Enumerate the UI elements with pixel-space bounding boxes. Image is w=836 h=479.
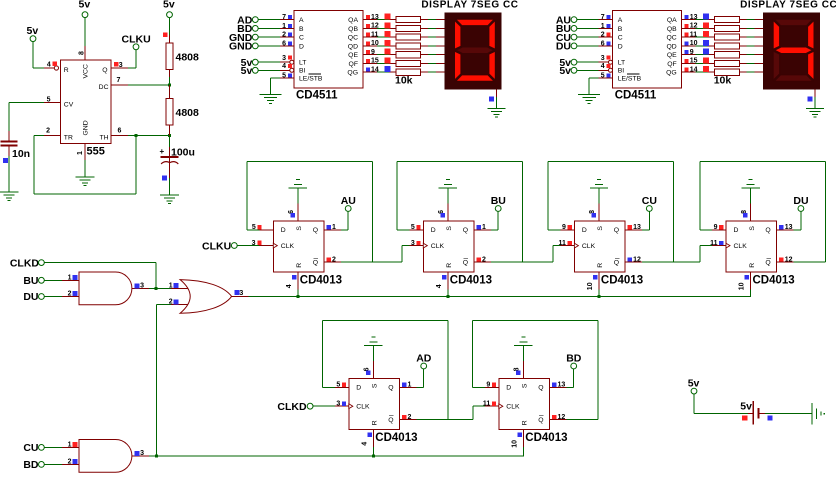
svg-text:A: A bbox=[618, 17, 623, 24]
wire Q to terminal BU U4B bbox=[474, 229, 491, 230]
pin number 1 and square (Q) bbox=[402, 383, 406, 387]
clock triangle U4B bbox=[423, 243, 427, 248]
resistor 10k #1 bbox=[715, 17, 740, 23]
wire S pin to ground U6B bbox=[523, 361, 524, 378]
wire CLKU to U4A CLK bbox=[237, 245, 259, 246]
svg-text:CD4013: CD4013 bbox=[525, 432, 567, 444]
wire D feedback loop U6B bbox=[473, 387, 485, 388]
wire Qbar U5B bbox=[777, 262, 794, 263]
wire resistor to display bbox=[739, 63, 746, 64]
svg-text:Q: Q bbox=[313, 227, 318, 234]
ground at U3 LE bbox=[578, 94, 600, 95]
resistor 10k #5 bbox=[396, 52, 421, 58]
svg-text:AD: AD bbox=[416, 353, 432, 365]
svg-text:B: B bbox=[299, 26, 304, 33]
wire S pin to ground U4A bbox=[297, 204, 298, 221]
wire resistor to display bbox=[421, 19, 428, 20]
AND gate U7:B (CU AND BD) bbox=[79, 440, 132, 473]
svg-text:7: 7 bbox=[282, 14, 286, 21]
wire U3 QE pin 9 to resistor bbox=[682, 54, 696, 55]
wire U2 LE pin 5 to ground bbox=[280, 78, 294, 79]
svg-text:14: 14 bbox=[690, 66, 698, 73]
svg-text:12: 12 bbox=[371, 23, 379, 30]
pin number 4 and square (R) bbox=[442, 275, 446, 279]
svg-text:S: S bbox=[296, 226, 303, 231]
svg-text:11: 11 bbox=[483, 401, 491, 408]
wire U3 QD pin 10 to resistor bbox=[682, 45, 696, 46]
svg-text:BD: BD bbox=[566, 353, 582, 365]
ground at U2 LE bbox=[260, 94, 282, 95]
AND gate U7:A (BU AND DU) bbox=[79, 272, 132, 305]
terminal DU bbox=[798, 206, 804, 212]
svg-text:Q: Q bbox=[538, 385, 543, 392]
svg-text:4808: 4808 bbox=[176, 52, 200, 64]
state squares at battery bbox=[742, 415, 747, 420]
pin number 13 and square (Q) bbox=[552, 383, 556, 387]
svg-text:Q: Q bbox=[388, 385, 393, 392]
wire resistor to display bbox=[421, 54, 428, 55]
svg-text:Q: Q bbox=[765, 227, 770, 234]
svg-text:10k: 10k bbox=[714, 75, 732, 87]
wire Qbar U6B bbox=[550, 419, 567, 420]
wire Qbar to next CLK bbox=[552, 246, 553, 263]
svg-text:DISPLAY 7SEG CC: DISPLAY 7SEG CC bbox=[740, 0, 836, 11]
wire 555 GND pin1 to ground bbox=[85, 144, 86, 161]
svg-text:5: 5 bbox=[411, 224, 415, 231]
wire Qbar U4A bbox=[324, 262, 341, 263]
state square 100u bottom bbox=[162, 176, 167, 181]
svg-text:2: 2 bbox=[601, 32, 605, 39]
ground under 555 bbox=[76, 177, 95, 178]
svg-text:10k: 10k bbox=[395, 75, 413, 87]
pin number 12 and square (Qbar) bbox=[552, 415, 556, 419]
svg-text:CLKU: CLKU bbox=[202, 240, 231, 252]
svg-text:11: 11 bbox=[690, 31, 698, 38]
svg-text:10: 10 bbox=[587, 282, 594, 290]
svg-text:S: S bbox=[522, 383, 529, 388]
wire 5v to R pin of 555 bbox=[33, 42, 34, 68]
wire display common cathode to ground bbox=[496, 89, 497, 97]
svg-text:555: 555 bbox=[87, 146, 105, 158]
pin number 13 and square (Q) bbox=[628, 225, 632, 229]
svg-text:10: 10 bbox=[371, 40, 379, 47]
flip-flop U5A CD4013 body bbox=[574, 221, 625, 272]
svg-text:CU: CU bbox=[23, 442, 38, 454]
svg-text:5v: 5v bbox=[163, 0, 175, 11]
svg-text:S: S bbox=[597, 226, 604, 231]
svg-text:CD4511: CD4511 bbox=[615, 89, 657, 101]
svg-text:1: 1 bbox=[482, 224, 486, 231]
svg-text:TH: TH bbox=[99, 134, 108, 141]
svg-text:11: 11 bbox=[558, 240, 566, 247]
svg-text:3: 3 bbox=[252, 240, 256, 247]
wire S pin to ground U6A bbox=[373, 361, 374, 378]
svg-text:10: 10 bbox=[511, 440, 518, 448]
terminal BU bbox=[495, 206, 501, 212]
svg-text:14: 14 bbox=[371, 66, 379, 73]
svg-text:D: D bbox=[582, 227, 587, 234]
svg-text:2: 2 bbox=[332, 256, 336, 263]
svg-text:4: 4 bbox=[47, 61, 51, 68]
svg-text:9: 9 bbox=[486, 382, 490, 389]
svg-text:5: 5 bbox=[336, 382, 340, 389]
wire U2 QE pin 9 to resistor bbox=[363, 54, 377, 55]
svg-text:BI: BI bbox=[618, 68, 625, 75]
pin number 2 and square (Qbar) bbox=[326, 257, 330, 261]
wire 555 TH pin6 to divider bottom bbox=[111, 135, 128, 136]
svg-text:LE/STB: LE/STB bbox=[618, 76, 642, 83]
svg-text:5: 5 bbox=[47, 96, 51, 103]
svg-text:Q: Q bbox=[102, 67, 107, 74]
svg-text:GND: GND bbox=[83, 120, 90, 135]
svg-text:QG: QG bbox=[347, 70, 358, 77]
wire resistor to display bbox=[421, 37, 428, 38]
svg-text:15: 15 bbox=[371, 58, 379, 65]
svg-text:11: 11 bbox=[371, 31, 379, 38]
inverted ground above U6A bbox=[364, 345, 382, 346]
7-segment display showing 0 bbox=[444, 12, 501, 89]
svg-text:D: D bbox=[734, 227, 739, 234]
flip-flop U6B CD4013 body bbox=[499, 378, 550, 429]
svg-text:LE/STB: LE/STB bbox=[299, 76, 323, 83]
svg-text:6: 6 bbox=[282, 40, 286, 47]
svg-text:2: 2 bbox=[482, 256, 486, 263]
wire U3 QA pin 13 to resistor bbox=[682, 19, 696, 20]
wire Q to terminal DU U5B bbox=[777, 229, 794, 230]
svg-text:4808: 4808 bbox=[176, 107, 200, 119]
svg-text:LT: LT bbox=[299, 60, 306, 67]
wire divider to capacitor 100u bbox=[169, 125, 170, 135]
svg-text:CLK: CLK bbox=[506, 404, 520, 411]
wire D feedback loop U5B bbox=[700, 229, 712, 230]
pin number 2 and square (Qbar) bbox=[476, 257, 480, 261]
pin number 12 and square (Qbar) bbox=[628, 257, 632, 261]
svg-text:QD: QD bbox=[348, 43, 358, 50]
clock triangle U6B bbox=[499, 404, 503, 409]
svg-text:3: 3 bbox=[282, 55, 286, 62]
wire D feedback loop U4A bbox=[247, 229, 259, 230]
svg-text:1: 1 bbox=[408, 382, 412, 389]
pin number 13 and square (Q) bbox=[779, 225, 783, 229]
svg-text:QE: QE bbox=[348, 52, 358, 59]
wire resistor to display bbox=[739, 19, 746, 20]
svg-text:QC: QC bbox=[666, 35, 676, 42]
svg-text:10: 10 bbox=[690, 40, 698, 47]
wire U3 QG pin 14 to resistor bbox=[682, 72, 696, 73]
svg-text:12: 12 bbox=[633, 256, 641, 263]
svg-text:BU: BU bbox=[491, 195, 506, 207]
wire resistor to display bbox=[421, 45, 428, 46]
OR in1 pin square bbox=[173, 283, 178, 288]
svg-text:3: 3 bbox=[239, 290, 243, 297]
svg-text:2: 2 bbox=[68, 291, 72, 298]
resistor 10k #6 bbox=[396, 60, 421, 66]
svg-text:4: 4 bbox=[282, 63, 286, 70]
resistor 10k #3 bbox=[396, 34, 421, 40]
resistor 10k #4 bbox=[396, 43, 421, 49]
battery BAT1 5v bbox=[753, 401, 755, 425]
svg-text:12: 12 bbox=[558, 414, 566, 421]
svg-text:2: 2 bbox=[282, 32, 286, 39]
wire 5v to battery bbox=[694, 394, 695, 414]
svg-text:CLKD: CLKD bbox=[277, 401, 307, 413]
svg-text:CD4013: CD4013 bbox=[300, 274, 342, 286]
svg-text:2: 2 bbox=[169, 299, 173, 306]
wire Qbar U5A bbox=[625, 262, 642, 263]
wire BU to AND1 bbox=[44, 280, 62, 281]
svg-text:CLK: CLK bbox=[431, 243, 445, 250]
svg-text:Q: Q bbox=[463, 227, 468, 234]
capacitor 10n C1 bbox=[9, 131, 10, 142]
svg-text:CV: CV bbox=[64, 101, 74, 108]
wire R pin to reset rail U5B bbox=[750, 272, 751, 290]
svg-text:QE: QE bbox=[667, 52, 677, 59]
resistor 10k #6 bbox=[715, 60, 740, 66]
svg-text:11: 11 bbox=[710, 240, 718, 247]
svg-text:5: 5 bbox=[601, 73, 605, 80]
svg-text:S: S bbox=[446, 226, 453, 231]
svg-text:13: 13 bbox=[633, 224, 641, 231]
svg-text:CLK: CLK bbox=[734, 243, 748, 250]
svg-text:QG: QG bbox=[666, 70, 677, 77]
resistor 10k #7 bbox=[715, 69, 740, 75]
resistor 4808 #1 bbox=[166, 43, 173, 70]
wire R pin to reset rail U6A bbox=[373, 429, 374, 447]
wire R pin to reset rail U4A bbox=[297, 272, 298, 290]
resistor 10k #4 bbox=[715, 43, 740, 49]
svg-text:15: 15 bbox=[690, 58, 698, 65]
pin number 4 and square (R) bbox=[292, 275, 296, 279]
svg-text:3: 3 bbox=[411, 240, 415, 247]
flip-flop U5B CD4013 body bbox=[726, 221, 777, 272]
wire CLKD to U6A CLK bbox=[313, 406, 335, 407]
state square divider top bbox=[163, 32, 168, 37]
wire BD to AND2 bbox=[44, 464, 62, 465]
OR gate U8:A bbox=[180, 280, 232, 314]
svg-text:1: 1 bbox=[601, 23, 605, 30]
terminal AU bbox=[345, 206, 351, 212]
svg-text:13: 13 bbox=[558, 382, 566, 389]
svg-text:5v: 5v bbox=[241, 65, 253, 77]
pin number 3 and state square (555 Q) bbox=[114, 62, 118, 66]
clock triangle U4A bbox=[273, 243, 277, 248]
terminal AD bbox=[421, 363, 427, 369]
wire D feedback loop U6A bbox=[323, 387, 335, 388]
svg-text:D: D bbox=[506, 385, 511, 392]
svg-text:CD4511: CD4511 bbox=[296, 89, 338, 101]
wire S pin to ground U5A bbox=[599, 204, 600, 221]
svg-text:QA: QA bbox=[667, 17, 677, 24]
svg-text:VCC: VCC bbox=[83, 64, 90, 78]
svg-text:CLK: CLK bbox=[582, 243, 596, 250]
svg-text:5: 5 bbox=[252, 224, 256, 231]
wire 555 Q pin3 to CLKU bbox=[111, 68, 128, 69]
pin number 10 and square (R) bbox=[745, 275, 749, 279]
wire U2 QG pin 14 to resistor bbox=[363, 72, 377, 73]
wire Q to terminal BD U6B bbox=[550, 387, 567, 388]
resistor 10k #5 bbox=[715, 52, 740, 58]
wire Qbar to next CLK bbox=[472, 406, 473, 419]
svg-text:6: 6 bbox=[118, 128, 122, 135]
flip-flop U4B CD4013 body bbox=[423, 221, 474, 272]
resistor 10k #2 bbox=[396, 25, 421, 31]
svg-text:Q: Q bbox=[614, 259, 619, 266]
inversion bubble on 555 R pin bbox=[54, 66, 58, 70]
wire OR output to reset rail of up chain bbox=[232, 296, 249, 297]
inverted ground above U4A bbox=[289, 188, 307, 189]
wire CLKD to OR input 1 junction bbox=[44, 262, 156, 263]
wire AND2 output / reset rail of down chain bbox=[132, 455, 149, 456]
svg-text:9: 9 bbox=[714, 224, 718, 231]
svg-text:6: 6 bbox=[601, 40, 605, 47]
svg-text:LT: LT bbox=[618, 60, 625, 67]
inverted ground above U5A bbox=[590, 188, 608, 189]
ground under display bbox=[487, 108, 505, 109]
svg-text:R: R bbox=[372, 420, 379, 425]
svg-text:CD4013: CD4013 bbox=[375, 432, 417, 444]
svg-text:DC: DC bbox=[99, 84, 109, 91]
svg-text:DU: DU bbox=[793, 195, 808, 207]
svg-text:2: 2 bbox=[46, 128, 50, 135]
svg-text:R: R bbox=[522, 420, 529, 425]
svg-text:CD4013: CD4013 bbox=[753, 274, 795, 286]
terminal CU bbox=[646, 206, 652, 212]
wire resistor to display bbox=[739, 28, 746, 29]
svg-text:7: 7 bbox=[601, 14, 605, 21]
wire display common cathode to ground bbox=[815, 89, 816, 97]
pin 3 and square (AND1 out) bbox=[134, 283, 139, 288]
wire Qbar to next CLK bbox=[401, 246, 402, 263]
svg-text:1: 1 bbox=[77, 151, 84, 155]
wire 4808#1 to DC junction bbox=[169, 70, 170, 78]
resistor 10k #2 bbox=[715, 25, 740, 31]
svg-text:9: 9 bbox=[562, 224, 566, 231]
wire Q to terminal AU U4A bbox=[324, 229, 341, 230]
svg-text:12: 12 bbox=[690, 23, 698, 30]
svg-text:10n: 10n bbox=[12, 148, 30, 160]
flip-flop U6A CD4013 body bbox=[349, 378, 400, 429]
svg-text:12: 12 bbox=[785, 256, 793, 263]
wire battery to ground bbox=[760, 413, 765, 414]
svg-text:Q: Q bbox=[463, 259, 468, 266]
pin number 1 and square (Q) bbox=[476, 225, 480, 229]
svg-text:+: + bbox=[160, 147, 165, 156]
OR in2 pin square bbox=[173, 299, 178, 304]
svg-text:4: 4 bbox=[286, 284, 293, 288]
pin number 10 and square (R) bbox=[518, 433, 522, 437]
flip-flop U4A CD4013 body bbox=[273, 221, 324, 272]
svg-text:BI: BI bbox=[299, 68, 306, 75]
clock triangle U5B bbox=[726, 243, 730, 248]
clock triangle U5A bbox=[574, 243, 578, 248]
wire 5v to resistor 4808 #1 bbox=[169, 18, 170, 35]
wire CU to AND2 bbox=[44, 447, 62, 448]
svg-text:R: R bbox=[64, 67, 69, 74]
wire resistor to display bbox=[739, 45, 746, 46]
wire resistor to display bbox=[739, 72, 746, 73]
svg-text:CLK: CLK bbox=[281, 243, 295, 250]
wire R pin to reset rail U5A bbox=[599, 272, 600, 290]
wire U3 QF pin 15 to resistor bbox=[682, 63, 696, 64]
wire Qbar U6A bbox=[400, 419, 417, 420]
wire resistor to display bbox=[421, 63, 428, 64]
svg-text:AU: AU bbox=[341, 195, 356, 207]
inverted ground above U6B bbox=[514, 345, 532, 346]
svg-text:8: 8 bbox=[79, 51, 86, 55]
svg-text:S: S bbox=[749, 226, 756, 231]
wire 555 TR pin2 loop to TH bbox=[44, 135, 61, 136]
svg-text:B: B bbox=[618, 26, 623, 33]
svg-text:R: R bbox=[446, 263, 453, 268]
wire U2 QB pin 12 to resistor bbox=[363, 28, 377, 29]
pin number 12 and square (Qbar) bbox=[779, 257, 783, 261]
svg-text:Q: Q bbox=[388, 417, 393, 424]
svg-text:3: 3 bbox=[336, 401, 340, 408]
svg-text:5v: 5v bbox=[27, 25, 39, 37]
wire 5v to VCC pin 8 bbox=[85, 18, 86, 46]
svg-text:2: 2 bbox=[408, 414, 412, 421]
wire resistor to display bbox=[421, 72, 428, 73]
svg-text:GND: GND bbox=[229, 41, 253, 53]
ground under display bbox=[806, 108, 824, 109]
svg-text:100u: 100u bbox=[171, 147, 195, 159]
inverted ground above U4B bbox=[439, 188, 457, 189]
ground under 10n bbox=[0, 192, 19, 193]
svg-text:3: 3 bbox=[601, 55, 605, 62]
svg-text:Q: Q bbox=[538, 417, 543, 424]
pin 3 and square (AND2 out) bbox=[134, 451, 139, 456]
wire AND1 output to OR input 1 bbox=[132, 288, 149, 289]
wire U2 QA pin 13 to resistor bbox=[363, 19, 377, 20]
svg-text:13: 13 bbox=[690, 14, 698, 21]
svg-text:1: 1 bbox=[68, 274, 72, 281]
resistor 10k #7 bbox=[396, 69, 421, 75]
svg-text:Q: Q bbox=[614, 227, 619, 234]
svg-text:1: 1 bbox=[332, 224, 336, 231]
ground under 100u bbox=[160, 195, 179, 196]
svg-text:D: D bbox=[431, 227, 436, 234]
wire U3 LE pin 5 to ground bbox=[599, 78, 613, 79]
svg-text:R: R bbox=[749, 263, 756, 268]
pin 3 and square (OR out) bbox=[235, 290, 240, 295]
svg-text:5v: 5v bbox=[79, 0, 91, 11]
svg-text:QB: QB bbox=[667, 26, 677, 33]
svg-text:3: 3 bbox=[140, 283, 144, 290]
svg-text:DU: DU bbox=[556, 41, 571, 53]
CD4511 decoder U3 body bbox=[613, 11, 682, 88]
wire Qbar to next CLK bbox=[699, 246, 700, 263]
wire D feedback loop U4B bbox=[397, 229, 409, 230]
wire 555 CV pin5 to capacitor 10n bbox=[44, 102, 61, 103]
svg-text:QB: QB bbox=[348, 26, 358, 33]
wire resistor to display bbox=[739, 54, 746, 55]
wire U3 QB pin 12 to resistor bbox=[682, 28, 696, 29]
svg-text:C: C bbox=[299, 35, 304, 42]
wire 555 DC pin7 to divider bbox=[111, 85, 128, 86]
wire R pin to reset rail U4B bbox=[447, 272, 448, 290]
svg-text:1: 1 bbox=[282, 23, 286, 30]
capacitor 100u C2 (polarized) bbox=[161, 156, 179, 158]
op: 555 timer U1 body bbox=[61, 60, 112, 144]
7-segment display showing 4 bbox=[763, 12, 820, 89]
svg-text:R: R bbox=[296, 263, 303, 268]
svg-text:BD: BD bbox=[23, 459, 39, 471]
wire U2 QF pin 15 to resistor bbox=[363, 63, 377, 64]
resistor 10k #1 bbox=[396, 17, 421, 23]
svg-text:4: 4 bbox=[361, 442, 368, 446]
svg-text:13: 13 bbox=[371, 14, 379, 21]
svg-text:CD4013: CD4013 bbox=[450, 274, 492, 286]
